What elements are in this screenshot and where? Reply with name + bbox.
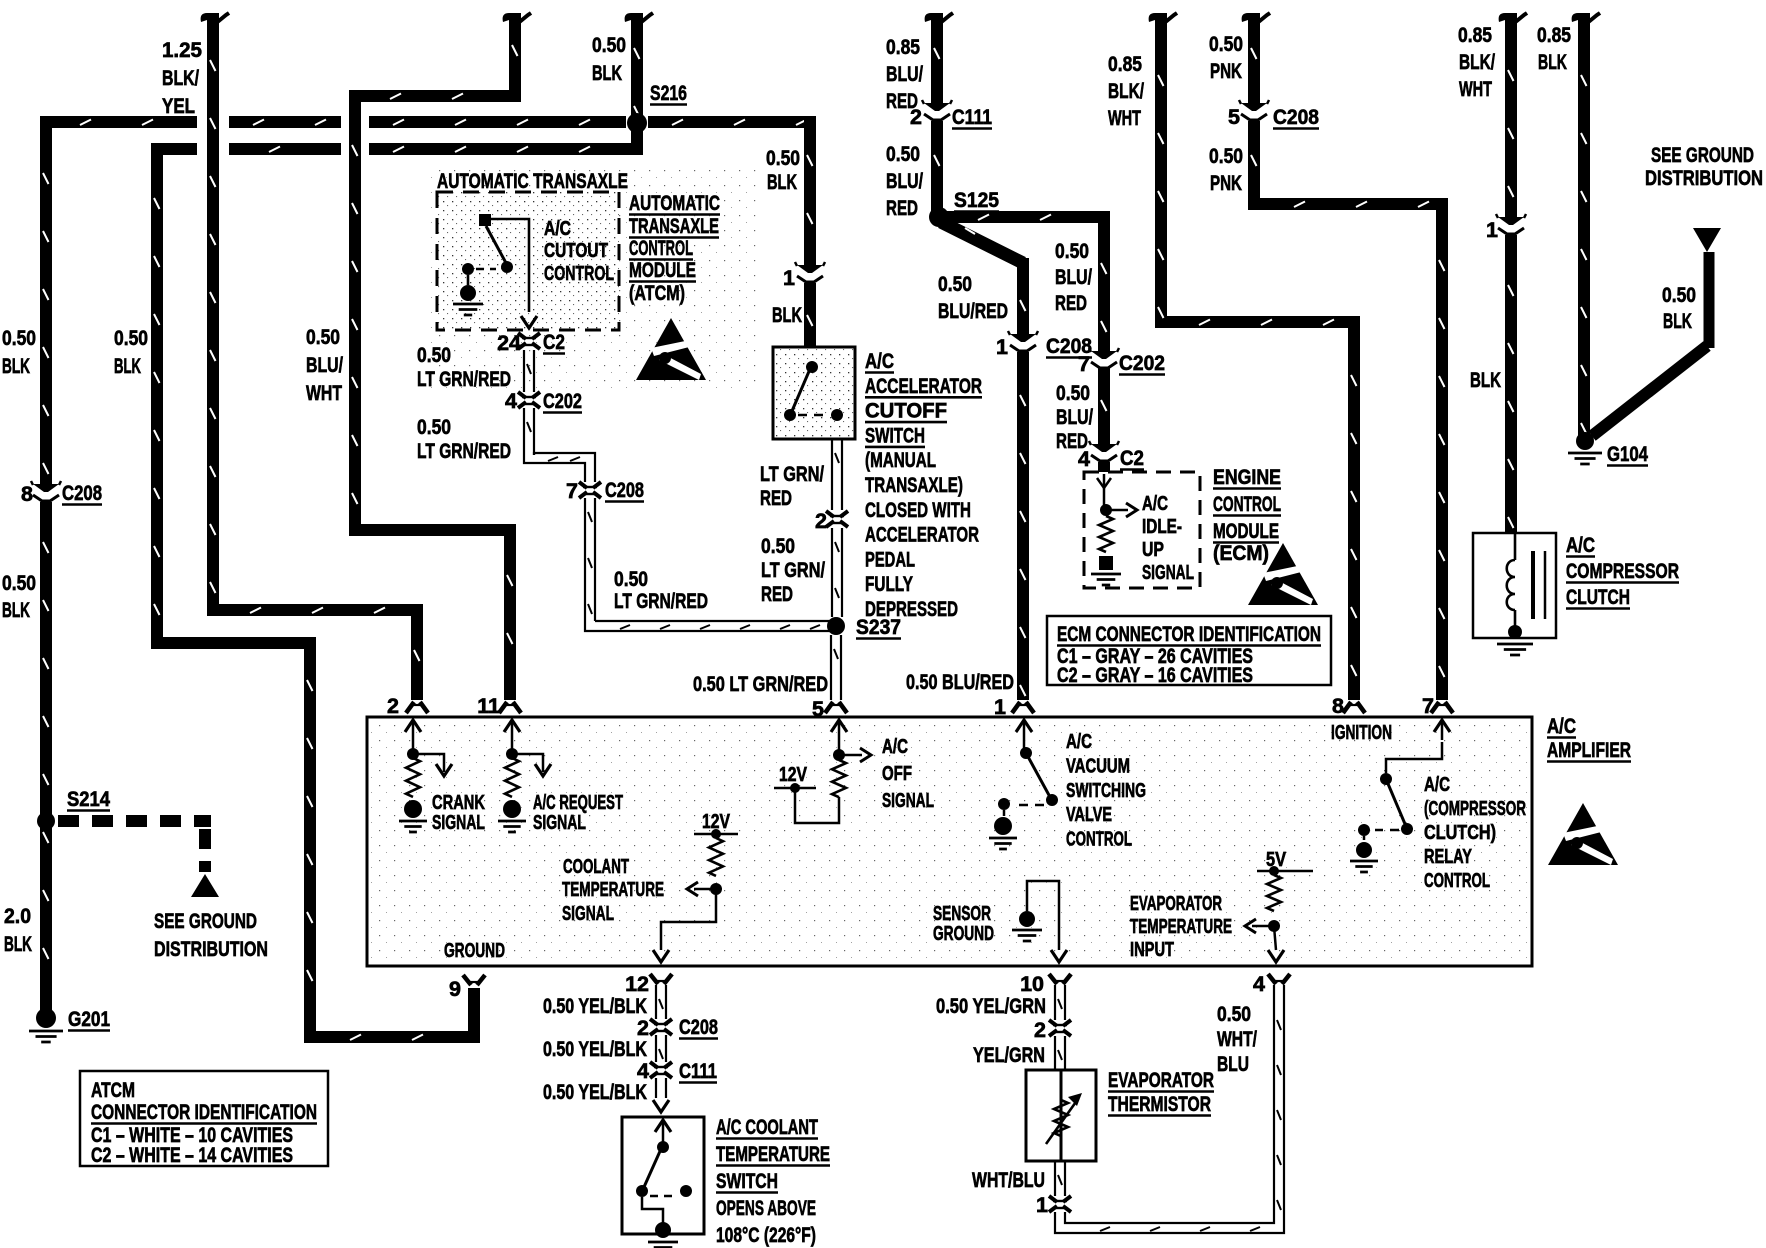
svg-text:11: 11 xyxy=(477,694,500,718)
coolant switch contacts xyxy=(662,1122,665,1142)
svg-text:UP: UP xyxy=(1142,539,1164,561)
svg-text:SWITCH: SWITCH xyxy=(716,1169,778,1193)
svg-text:S214: S214 xyxy=(67,787,110,811)
svg-text:0.85: 0.85 xyxy=(886,35,920,59)
svg-text:S216: S216 xyxy=(650,81,687,105)
connector C208 pin 2 xyxy=(650,1019,672,1025)
svg-text:CONTROL: CONTROL xyxy=(1066,829,1132,851)
svg-text:0.50: 0.50 xyxy=(761,534,795,558)
wire W5 0.50 BLK to accelerator cutoff switch xyxy=(804,116,816,265)
svg-text:PNK: PNK xyxy=(1210,59,1242,83)
clutch plates xyxy=(1531,551,1535,619)
clutch ground dot xyxy=(1508,625,1522,639)
svg-text:0.50: 0.50 xyxy=(306,325,340,349)
svg-text:LT GRN/RED: LT GRN/RED xyxy=(614,589,708,613)
A/C coolant temperature switch box xyxy=(622,1117,704,1234)
connector C208 pin 1 xyxy=(1010,334,1036,342)
svg-text:S125: S125 xyxy=(954,188,999,212)
svg-text:24: 24 xyxy=(497,331,521,355)
splice S237 xyxy=(827,617,845,635)
connector C2 pin 4 xyxy=(1091,444,1117,452)
svg-text:CONTROL: CONTROL xyxy=(544,263,614,285)
svg-text:0.50: 0.50 xyxy=(2,326,36,350)
svg-text:7: 7 xyxy=(566,479,578,503)
clutch coil xyxy=(1514,533,1517,560)
ground G104 xyxy=(1576,432,1594,450)
wire WHT/BLU bottom U to pin 4 xyxy=(1055,985,1284,1233)
connector C202 pin 7 xyxy=(1091,351,1117,359)
inline connector pin 2 thermistor xyxy=(1049,1020,1071,1026)
svg-text:7: 7 xyxy=(1422,694,1434,718)
wire W4 0.50 BLU/WHT xyxy=(503,13,521,22)
svg-text:CONTROL: CONTROL xyxy=(1213,492,1281,516)
amplifier pin 11 connector xyxy=(499,702,521,713)
svg-text:MODULE: MODULE xyxy=(1213,519,1279,543)
svg-text:0.50 BLU/RED: 0.50 BLU/RED xyxy=(906,670,1014,694)
svg-text:BLK/: BLK/ xyxy=(1459,50,1495,74)
svg-text:TEMPERATURE: TEMPERATURE xyxy=(562,879,664,901)
svg-text:LT GRN/RED: LT GRN/RED xyxy=(417,439,511,463)
svg-text:WHT/: WHT/ xyxy=(1217,1027,1257,1051)
amplifier pin 4 connector xyxy=(1268,974,1290,984)
svg-text:0.85: 0.85 xyxy=(1108,52,1142,76)
connector C208 pin 7 xyxy=(579,482,601,488)
svg-text:GROUND: GROUND xyxy=(444,940,505,962)
splice S214 xyxy=(37,812,55,830)
A/C off signal circuit pin 5 xyxy=(838,722,841,753)
svg-text:C2: C2 xyxy=(1120,446,1144,470)
A/C accelerator cutoff switch box xyxy=(773,347,855,439)
amplifier pin 5 connector xyxy=(825,702,847,713)
svg-text:SIGNAL: SIGNAL xyxy=(882,790,934,812)
svg-text:BLK: BLK xyxy=(767,170,797,194)
svg-text:A/C COOLANT: A/C COOLANT xyxy=(716,1115,818,1139)
wire WHT/BLU below thermistor xyxy=(1055,1161,1065,1196)
A/C vacuum switching valve control circuit pin 1 xyxy=(1023,722,1026,750)
A/C compressor clutch box xyxy=(1473,533,1556,638)
svg-text:0.50 YEL/BLK: 0.50 YEL/BLK xyxy=(543,1080,647,1104)
ECM dashed box xyxy=(1084,472,1200,588)
svg-text:0.50 YEL/GRN: 0.50 YEL/GRN xyxy=(936,994,1046,1018)
svg-text:1: 1 xyxy=(1036,1193,1048,1217)
svg-text:C2 – WHITE – 14 CAVITIES: C2 – WHITE – 14 CAVITIES xyxy=(91,1143,293,1167)
svg-text:A/C REQUEST: A/C REQUEST xyxy=(533,792,623,814)
svg-text:BLK: BLK xyxy=(1470,368,1501,392)
svg-text:0.50: 0.50 xyxy=(886,142,920,166)
svg-text:BLK: BLK xyxy=(772,303,802,327)
thermistor symbol xyxy=(1060,1070,1063,1161)
svg-text:ATCM: ATCM xyxy=(91,1078,135,1102)
amplifier pin 2 connector xyxy=(406,702,428,713)
svg-text:ENGINE: ENGINE xyxy=(1213,465,1281,489)
svg-text:0.50 YEL/BLK: 0.50 YEL/BLK xyxy=(543,994,647,1018)
svg-text:0.50 LT GRN/RED: 0.50 LT GRN/RED xyxy=(693,672,828,696)
wire from cutout switch to C2 pin 24 xyxy=(491,219,529,312)
svg-text:0.50: 0.50 xyxy=(614,567,648,591)
inline connector pin 1 on W5 xyxy=(797,265,823,273)
svg-text:0.50: 0.50 xyxy=(592,33,626,57)
svg-text:ECM CONNECTOR IDENTIFICATION: ECM CONNECTOR IDENTIFICATION xyxy=(1057,622,1321,646)
svg-text:AMPLIFIER: AMPLIFIER xyxy=(1547,738,1631,762)
svg-text:1: 1 xyxy=(994,695,1006,719)
svg-text:RED: RED xyxy=(886,196,918,220)
A/C idle-up signal circuit xyxy=(1103,474,1106,505)
svg-text:8: 8 xyxy=(1332,694,1344,718)
svg-text:ACCELERATOR: ACCELERATOR xyxy=(865,523,979,547)
wire 0.50 BLK from arrow to G104 xyxy=(1704,252,1715,348)
svg-text:SEE GROUND: SEE GROUND xyxy=(1651,143,1754,167)
svg-text:EVAPORATOR: EVAPORATOR xyxy=(1108,1068,1214,1092)
svg-text:THERMISTOR: THERMISTOR xyxy=(1108,1092,1211,1116)
amplifier pin 10 connector xyxy=(1049,974,1071,984)
svg-text:108°C (226°F): 108°C (226°F) xyxy=(716,1223,816,1247)
svg-text:COOLANT: COOLANT xyxy=(563,856,629,878)
amplifier pin 1 connector xyxy=(1012,702,1034,713)
svg-text:CONNECTOR IDENTIFICATION: CONNECTOR IDENTIFICATION xyxy=(91,1100,317,1124)
svg-text:A/C: A/C xyxy=(1066,731,1092,753)
svg-text:4: 4 xyxy=(505,389,517,413)
svg-text:1: 1 xyxy=(996,335,1008,359)
svg-text:12: 12 xyxy=(625,972,649,996)
svg-text:A/C: A/C xyxy=(865,349,894,373)
svg-text:DISTRIBUTION: DISTRIBUTION xyxy=(154,937,268,961)
scan noise background behind ATCM area xyxy=(428,168,760,393)
svg-text:BLK: BLK xyxy=(592,61,622,85)
svg-text:DEPRESSED: DEPRESSED xyxy=(865,597,958,621)
svg-text:1.25: 1.25 xyxy=(162,38,202,62)
svg-text:0.50: 0.50 xyxy=(1209,144,1243,168)
wire S216 to bus2 link xyxy=(631,128,643,155)
svg-text:(COMPRESSOR: (COMPRESSOR xyxy=(1424,798,1526,820)
svg-text:VACUUM: VACUUM xyxy=(1066,755,1130,777)
svg-text:OFF: OFF xyxy=(882,763,912,785)
svg-text:BLU: BLU xyxy=(1217,1052,1249,1076)
svg-text:(ECM): (ECM) xyxy=(1213,541,1269,565)
wire 0.50 LT GRN/RED C208 to S237 xyxy=(585,498,595,621)
svg-text:WHT: WHT xyxy=(1459,77,1492,101)
svg-text:SIGNAL: SIGNAL xyxy=(533,812,586,834)
svg-text:0.85: 0.85 xyxy=(1458,23,1492,47)
svg-text:BLU/: BLU/ xyxy=(886,169,923,193)
ECM connector identification box xyxy=(1047,616,1331,685)
svg-text:MODULE: MODULE xyxy=(629,258,696,282)
svg-text:AUTOMATIC TRANSAXLE: AUTOMATIC TRANSAXLE xyxy=(437,169,628,193)
svg-text:A/C: A/C xyxy=(1142,493,1168,515)
svg-text:RED: RED xyxy=(761,582,793,606)
svg-text:WHT: WHT xyxy=(1108,106,1141,130)
svg-text:0.50: 0.50 xyxy=(1217,1002,1251,1026)
wire W3 0.50 BLK into S216 xyxy=(625,13,643,22)
svg-text:C208: C208 xyxy=(679,1015,718,1039)
svg-text:BLK: BLK xyxy=(4,932,32,956)
svg-text:SWITCHING: SWITCHING xyxy=(1066,780,1146,802)
svg-text:IGNITION: IGNITION xyxy=(1331,722,1392,744)
svg-text:PEDAL: PEDAL xyxy=(865,547,915,571)
svg-text:DISTRIBUTION: DISTRIBUTION xyxy=(1645,166,1763,190)
svg-text:1: 1 xyxy=(783,266,795,290)
wire W9 0.85 BLK/WHT to amplifier pin 8 xyxy=(1149,13,1167,22)
svg-text:TEMPERATURE: TEMPERATURE xyxy=(1130,916,1232,938)
ESD symbol near ECM xyxy=(1248,543,1318,605)
sensor ground circuit pin 10 xyxy=(1027,881,1059,950)
svg-text:BLU/: BLU/ xyxy=(886,62,923,86)
svg-text:CRANK: CRANK xyxy=(432,792,485,814)
svg-text:TEMPERATURE: TEMPERATURE xyxy=(716,1142,830,1166)
wire W2 0.50 BLK (bus2 branch to amplifier pin 9) xyxy=(151,143,163,649)
crank signal circuit pin 2 xyxy=(412,722,415,752)
svg-text:LT GRN/: LT GRN/ xyxy=(760,462,824,486)
svg-text:SIGNAL: SIGNAL xyxy=(1142,562,1194,584)
connector C111 pin 4 xyxy=(650,1062,672,1068)
svg-text:2.0: 2.0 xyxy=(4,904,31,928)
wire W_A 0.50 BLK left vertical to G201 xyxy=(40,116,52,484)
svg-text:12V: 12V xyxy=(702,811,731,833)
svg-text:RED: RED xyxy=(1055,291,1087,315)
svg-text:ACCELERATOR: ACCELERATOR xyxy=(865,374,982,398)
svg-text:C208: C208 xyxy=(62,481,102,505)
svg-text:SEE GROUND: SEE GROUND xyxy=(154,909,257,933)
wire W1 1.25 BLK/YEL xyxy=(201,13,219,22)
svg-text:1: 1 xyxy=(1486,218,1498,242)
amplifier pin 7 connector xyxy=(1431,702,1453,713)
svg-text:0.50: 0.50 xyxy=(2,571,36,595)
connector C202 pin 4 xyxy=(518,392,540,398)
svg-text:CLUTCH): CLUTCH) xyxy=(1424,822,1496,844)
svg-text:INPUT: INPUT xyxy=(1130,939,1174,961)
svg-text:CONTROL: CONTROL xyxy=(1424,870,1490,892)
svg-text:VALVE: VALVE xyxy=(1066,804,1112,826)
amplifier pin 8 connector xyxy=(1343,702,1365,713)
svg-text:10: 10 xyxy=(1020,972,1044,996)
wire W6 0.85 BLU/RED to S125 xyxy=(925,13,943,22)
amplifier pin 12 connector xyxy=(650,974,672,984)
svg-text:C208: C208 xyxy=(1273,105,1319,129)
svg-text:5: 5 xyxy=(1228,105,1240,129)
svg-text:BLU/RED: BLU/RED xyxy=(938,299,1008,323)
svg-text:WHT: WHT xyxy=(306,381,342,405)
svg-text:GROUND: GROUND xyxy=(933,923,994,945)
A/C amplifier box xyxy=(367,717,1532,966)
svg-text:IDLE-: IDLE- xyxy=(1142,516,1182,538)
svg-text:LT GRN/RED: LT GRN/RED xyxy=(417,367,511,391)
accelerator switch contacts xyxy=(806,361,818,373)
svg-text:CUTOUT: CUTOUT xyxy=(544,240,608,262)
ground G201 xyxy=(36,1008,56,1028)
wire 0.50 YEL/BLK C111 to switch xyxy=(656,1078,666,1098)
svg-text:0.50: 0.50 xyxy=(766,146,800,170)
svg-text:C208: C208 xyxy=(605,478,644,502)
connector C208 pin 5 xyxy=(1241,103,1267,111)
svg-text:COMPRESSOR: COMPRESSOR xyxy=(1566,559,1679,583)
ESD symbol near amplifier xyxy=(1548,803,1618,865)
wire W12 0.85 BLK to G104 xyxy=(1572,13,1590,22)
svg-text:SENSOR: SENSOR xyxy=(933,903,991,925)
evaporator thermistor box xyxy=(1026,1070,1096,1161)
splice S216 xyxy=(627,113,647,133)
svg-text:BLK: BLK xyxy=(1663,309,1692,333)
svg-text:8: 8 xyxy=(21,482,33,506)
svg-text:G104: G104 xyxy=(1607,442,1648,466)
wire 0.50 LT GRN/RED to S237 xyxy=(832,528,842,617)
svg-text:CUTOFF: CUTOFF xyxy=(865,399,947,423)
svg-text:WHT/BLU: WHT/BLU xyxy=(972,1168,1045,1192)
svg-text:(ATCM): (ATCM) xyxy=(629,281,685,305)
svg-text:0.50: 0.50 xyxy=(417,343,451,367)
connector C111 pin 2 xyxy=(924,103,950,111)
svg-text:BLK: BLK xyxy=(114,354,141,378)
connector C2 pin 24 xyxy=(518,333,540,339)
svg-text:BLU/: BLU/ xyxy=(1056,405,1093,429)
svg-text:0.50: 0.50 xyxy=(1209,32,1243,56)
wire W10 0.50 PNK to amplifier pin 7 xyxy=(1242,13,1260,22)
svg-text:EVAPORATOR: EVAPORATOR xyxy=(1130,893,1222,915)
svg-text:LT GRN/: LT GRN/ xyxy=(761,558,825,582)
svg-text:RED: RED xyxy=(1056,429,1088,453)
wire W7 0.50 BLU/RED S125 to ECM xyxy=(946,211,1110,223)
svg-text:CLUTCH: CLUTCH xyxy=(1566,585,1630,609)
ATCM connector identification box xyxy=(80,1071,328,1166)
inline connector pin 1 on W11 xyxy=(1498,217,1524,225)
wire bus1 0.50 BLK horizontal xyxy=(40,116,197,128)
wire 0.50 YEL/GRN pin 10 to connector 2 xyxy=(1055,985,1065,1020)
ground below coolant switch xyxy=(648,1242,678,1248)
svg-text:BLK: BLK xyxy=(2,354,30,378)
svg-text:A/C: A/C xyxy=(544,218,571,240)
svg-text:YEL: YEL xyxy=(162,94,195,118)
wire 0.50 LT GRN/RED C2 to C202 xyxy=(524,350,534,392)
amplifier pin 9 connector xyxy=(463,975,485,985)
svg-text:BLK: BLK xyxy=(1538,50,1567,74)
svg-text:TRANSAXLE): TRANSAXLE) xyxy=(865,473,963,497)
svg-text:SWITCH: SWITCH xyxy=(865,423,925,447)
svg-text:RELAY: RELAY xyxy=(1424,846,1472,868)
svg-text:CONTROL: CONTROL xyxy=(629,236,693,260)
svg-text:0.50: 0.50 xyxy=(114,326,148,350)
svg-text:PNK: PNK xyxy=(1210,171,1242,195)
svg-text:2: 2 xyxy=(1034,1018,1046,1042)
svg-text:C2 – GRAY – 16 CAVITIES: C2 – GRAY – 16 CAVITIES xyxy=(1057,663,1253,687)
wire W8 0.50 BLU/RED S125 to amplifier pin 1 xyxy=(941,222,1023,263)
svg-text:YEL/GRN: YEL/GRN xyxy=(973,1043,1045,1067)
svg-text:0.50: 0.50 xyxy=(938,272,972,296)
12V supply for pin 5 circuit xyxy=(774,787,816,790)
svg-text:TRANSAXLE: TRANSAXLE xyxy=(629,214,719,238)
svg-text:BLU/: BLU/ xyxy=(1055,265,1092,289)
triangle off-page arrow down xyxy=(1693,228,1721,252)
triangle off-page arrow up xyxy=(191,874,219,897)
svg-text:0.50: 0.50 xyxy=(417,415,451,439)
svg-text:BLK/: BLK/ xyxy=(162,66,199,90)
wire W11 0.85 BLK/WHT to compressor clutch xyxy=(1499,13,1517,22)
svg-text:FULLY: FULLY xyxy=(865,572,913,596)
wire 0.50 LT GRN/RED S237 to amplifier pin 5 xyxy=(831,635,841,700)
wire bus2 0.50 BLK horizontal xyxy=(151,143,197,155)
svg-text:BLK: BLK xyxy=(2,598,30,622)
svg-text:0.85: 0.85 xyxy=(1537,23,1571,47)
connector C208 pin 8 xyxy=(33,484,59,492)
wire 0.50 YEL/BLK C208 to C111 xyxy=(656,1035,666,1062)
svg-text:0.50: 0.50 xyxy=(1662,283,1696,307)
svg-text:RED: RED xyxy=(760,486,792,510)
coolant temperature signal circuit xyxy=(694,833,738,836)
svg-text:2: 2 xyxy=(387,694,399,718)
inline connector pin 1 thermistor xyxy=(1049,1196,1071,1202)
svg-text:CLOSED WITH: CLOSED WITH xyxy=(865,498,971,522)
svg-text:9: 9 xyxy=(449,977,461,1001)
wire LT GRN/RED switch to connector 2 xyxy=(832,439,842,510)
wire YEL/GRN to thermistor xyxy=(1055,1036,1065,1070)
svg-text:C202: C202 xyxy=(1119,351,1165,375)
svg-text:SIGNAL: SIGNAL xyxy=(562,903,614,925)
svg-text:OPENS ABOVE: OPENS ABOVE xyxy=(716,1196,816,1220)
svg-text:AUTOMATIC: AUTOMATIC xyxy=(629,191,720,215)
dashed wire to ground distribution xyxy=(58,815,211,827)
svg-text:4: 4 xyxy=(1253,972,1265,996)
A/C cutout control switch inside ATCM xyxy=(479,214,491,226)
svg-text:12V: 12V xyxy=(779,764,808,786)
svg-text:C208: C208 xyxy=(1046,334,1092,358)
svg-text:A/C: A/C xyxy=(1424,774,1450,796)
svg-text:G201: G201 xyxy=(68,1007,110,1031)
svg-text:(MANUAL: (MANUAL xyxy=(865,448,936,472)
svg-text:A/C: A/C xyxy=(882,736,908,758)
svg-text:C2: C2 xyxy=(543,330,565,354)
svg-text:SIGNAL: SIGNAL xyxy=(432,812,485,834)
svg-text:0.50: 0.50 xyxy=(1056,381,1090,405)
splice S125 xyxy=(929,207,949,227)
svg-text:BLU/: BLU/ xyxy=(306,353,343,377)
wire 0.50 LT GRN/RED C202 to C208 xyxy=(524,408,534,455)
ATCM dashed box xyxy=(437,192,619,330)
svg-text:C111: C111 xyxy=(679,1059,717,1083)
svg-text:0.50: 0.50 xyxy=(1055,239,1089,263)
svg-text:RED: RED xyxy=(886,89,918,113)
wire 0.50 YEL/BLK pin 12 to C208 xyxy=(656,985,666,1019)
ground below clutch box xyxy=(1497,644,1533,655)
A/C request signal circuit pin 11 xyxy=(511,722,514,752)
ESD symbol near ATCM xyxy=(636,318,706,380)
svg-text:2: 2 xyxy=(815,509,827,533)
inline connector pin 2 xyxy=(826,511,848,517)
svg-text:C111: C111 xyxy=(952,105,992,129)
svg-text:A/C: A/C xyxy=(1547,714,1576,738)
svg-text:C202: C202 xyxy=(543,389,582,413)
svg-text:A/C: A/C xyxy=(1566,533,1595,557)
svg-text:BLK/: BLK/ xyxy=(1108,79,1144,103)
svg-text:0.50 YEL/BLK: 0.50 YEL/BLK xyxy=(543,1037,647,1061)
wire 0.50 WHT/BLU pin 4 hatches xyxy=(1277,1020,1281,1210)
